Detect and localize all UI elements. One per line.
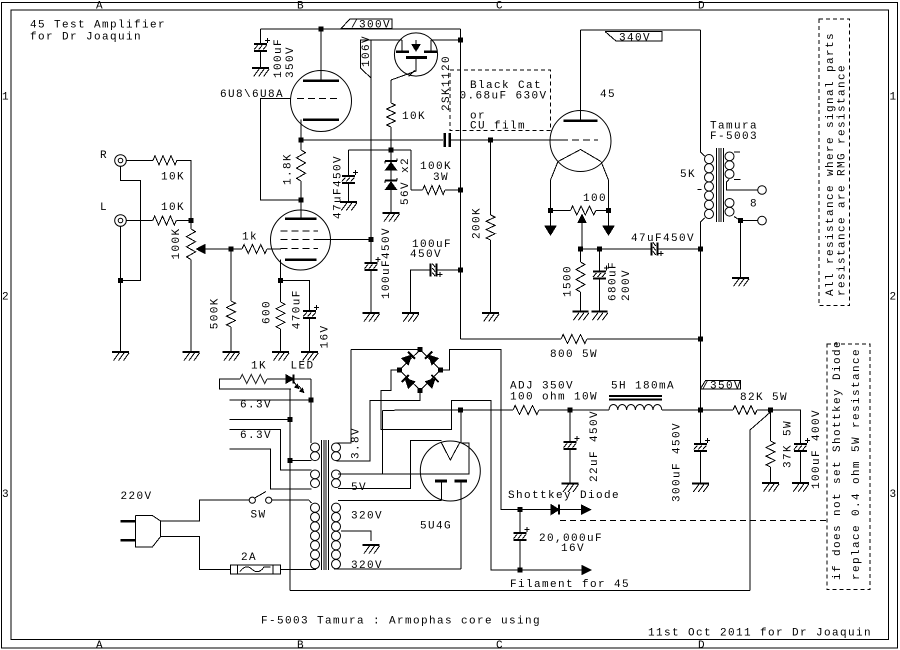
junction bridge bottom: [418, 388, 423, 393]
svg-text:200K: 200K: [472, 207, 484, 239]
flag 106V: [360, 40, 371, 78]
svg-text:16V: 16V: [561, 543, 585, 555]
svg-text:8: 8: [750, 199, 758, 211]
tube U1a 6U8 triode: [291, 71, 352, 132]
tube V3 5U4G: [420, 441, 480, 501]
bridge diode D4: [429, 355, 439, 365]
node mix junction: [189, 218, 194, 223]
pot wiper arrow: [197, 245, 206, 254]
wire 10K R to node: [177, 160, 191, 220]
fuse F1 2A: [230, 565, 280, 574]
svg-text:6.3V: 6.3V: [240, 400, 272, 412]
connector fil right arrow: [608, 211, 610, 227]
svg-text:200V: 200V: [621, 269, 633, 301]
svg-text:3: 3: [889, 489, 897, 501]
wire U1a plate up: [320, 29, 322, 81]
wire 6.3V-1 top: [230, 399, 312, 401]
resistor 10K L: [153, 216, 177, 225]
wire 1k to grid: [267, 248, 281, 250]
tube U1b 6U8 pentode: [271, 210, 331, 270]
zener D1 56V: [390, 150, 392, 161]
svg-text:16V: 16V: [319, 324, 331, 348]
wire sec gnd: [740, 221, 742, 278]
wire bridge ac2: [337, 390, 421, 461]
svg-text:100: 100: [583, 193, 607, 205]
potentiometer 100 hum: [551, 210, 571, 212]
wire LED cathode: [293, 378, 311, 380]
wire U1a grid: [261, 99, 299, 200]
junction cathode k2: [278, 278, 283, 283]
junction 100K3W net: [458, 188, 463, 193]
wire rail to C1: [260, 29, 262, 44]
svg-text:22uF 450V: 22uF 450V: [589, 410, 601, 482]
switch SW: [249, 497, 255, 503]
potentiometer 100K: [190, 221, 192, 230]
resistor 600: [280, 281, 282, 302]
svg-text:6.3V: 6.3V: [240, 430, 272, 442]
V3 filament notch: [441, 443, 460, 461]
junction bypass node: [458, 268, 463, 273]
svg-text:300uF 450V: 300uF 450V: [672, 422, 684, 502]
capacitor 470uF 16V: [303, 310, 316, 312]
wire zener gnd: [390, 190, 392, 213]
svg-text:320V: 320V: [351, 560, 383, 572]
ground bypass: [402, 312, 419, 314]
capacitor 47uF450V gate: [347, 150, 349, 176]
wire 63v1 coil link: [290, 460, 312, 462]
note box Shottkey: [827, 344, 870, 590]
ground pot: [183, 351, 200, 353]
U1b plate: [285, 218, 317, 221]
svg-text:5H 180mA: 5H 180mA: [611, 381, 675, 393]
svg-text:600: 600: [262, 300, 274, 324]
T2 winding 3.8V: [332, 443, 341, 452]
wire 22uF gnd: [569, 449, 571, 484]
resistor 82K 5W: [700, 409, 733, 411]
svg-text:resistance are RMG resistance: resistance are RMG resistance: [837, 64, 849, 296]
wire coupling out: [451, 139, 491, 141]
junction fil right: [606, 208, 611, 213]
T2 winding 6.3V no1: [311, 443, 320, 452]
note box Black Cat: [450, 70, 551, 131]
capacitor 300uF 450V: [694, 443, 707, 445]
wire bridge minus: [381, 370, 520, 570]
junction 63v1 bot: [288, 417, 293, 422]
svg-text:5K: 5K: [680, 169, 696, 181]
svg-text:11st Oct 2011 for Dr Joaquin: 11st Oct 2011 for Dr Joaquin: [648, 628, 872, 640]
capacitor C1 100uF 350V: [254, 43, 267, 45]
svg-text:10K: 10K: [161, 172, 185, 184]
svg-text:47uF450V: 47uF450V: [333, 155, 345, 219]
V2 filament legs: [551, 162, 559, 211]
svg-text:106V: 106V: [361, 35, 373, 67]
svg-text:1k: 1k: [242, 232, 258, 244]
svg-text:0.68uF 630V: 0.68uF 630V: [460, 91, 548, 103]
wire signal node: [301, 139, 443, 141]
svg-text:2: 2: [889, 292, 897, 304]
svg-text:3.8V: 3.8V: [351, 427, 363, 459]
resistor 10K R: [153, 156, 177, 165]
svg-text:All resistance where signal pa: All resistance where signal parts: [825, 32, 837, 296]
svg-text:if does not set Shottkey Diode: if does not set Shottkey Diode: [832, 340, 844, 580]
svg-text:CU film: CU film: [470, 121, 526, 133]
svg-text:6U8\6U8A: 6U8\6U8A: [220, 89, 284, 101]
junction B+ tfmr: [698, 246, 703, 251]
junction 63v1 coil: [288, 458, 293, 463]
diode Shottkey: [520, 509, 551, 511]
svg-text:5U4G: 5U4G: [420, 521, 452, 533]
wire filament 45 net: [290, 590, 750, 592]
svg-text:2: 2: [2, 292, 10, 304]
T2 winding 6.3V no2: [311, 470, 320, 479]
V2 filament: [558, 150, 601, 162]
U1b cathode: [285, 258, 317, 261]
wire 320V upper: [338, 499, 441, 501]
junction wiper net: [578, 246, 583, 251]
svg-text:100 ohm 10W: 100 ohm 10W: [510, 392, 598, 404]
T2 winding HV 320-0-320: [332, 503, 341, 512]
V3 plate left: [435, 480, 447, 483]
svg-text:220V: 220V: [121, 491, 153, 503]
wire 800 out: [587, 338, 700, 340]
bridge diode D3: [402, 355, 412, 365]
wire 47uF gnd: [347, 183, 349, 202]
V3 plate right: [455, 480, 467, 483]
svg-text:100uF 400V: 100uF 400V: [811, 409, 823, 489]
junction grid45 net: [488, 138, 493, 143]
T2 winding primary 220V: [311, 503, 320, 512]
junction 63v1 top: [309, 398, 314, 403]
svg-text:100K: 100K: [171, 227, 183, 259]
wire grid45: [491, 139, 562, 141]
wire 6.3V-1 bottom: [230, 419, 291, 421]
flag 300V: [341, 19, 392, 29]
wire 100uF400 gnd: [799, 451, 801, 483]
resistor 37K 5W: [770, 410, 772, 441]
wire sw to primary: [272, 499, 309, 501]
wire U1b cathode down: [280, 260, 282, 281]
capacitor coupling 0.68uF: [443, 133, 446, 147]
svg-text:350V: 350V: [285, 46, 297, 78]
junction bridge left: [397, 368, 402, 373]
jack R: [115, 155, 127, 167]
wire divider to filament: [750, 412, 771, 591]
wire screen cap gnd: [370, 270, 372, 313]
capacitor C 100uF450V screen: [370, 240, 372, 263]
T1 secondary lower: [725, 199, 734, 208]
wire adj out: [539, 409, 570, 411]
wire L sleeve: [120, 227, 122, 353]
wire cathode net: [581, 248, 652, 250]
connector fil plus arrow: [560, 509, 583, 511]
wire bias cap out: [659, 248, 701, 250]
ground 47uF: [340, 201, 357, 203]
wire 300uF gnd: [699, 451, 701, 484]
capacitor 47uF450V bias: [650, 242, 652, 255]
wire adj riser: [381, 410, 383, 474]
transformer T2 power core: [321, 440, 323, 570]
svg-text:37K 5W: 37K 5W: [783, 420, 795, 468]
ground 680uF: [592, 311, 608, 313]
wire 10K L out: [176, 220, 191, 222]
note box RMG: [819, 19, 850, 306]
rail zener node: [348, 149, 411, 151]
transistor Q1 2SK1120: [371, 33, 460, 80]
svg-text:C: C: [496, 0, 504, 12]
wire adj bus: [382, 409, 459, 411]
junction fil left: [548, 208, 553, 213]
wire fuse out: [280, 568, 316, 570]
svg-text:F-5003 Tamura : Armophas core: F-5003 Tamura : Armophas core using: [261, 616, 541, 628]
wire pot to ground: [190, 260, 192, 353]
wire U1a cathode down: [300, 120, 302, 141]
svg-text:L: L: [100, 202, 108, 214]
ground 300uF: [692, 483, 709, 485]
connector fil left arrow: [550, 211, 552, 227]
junction divider: [768, 408, 773, 413]
junction 22uF node: [568, 408, 573, 413]
svg-text:A: A: [96, 0, 104, 12]
svg-text:2A: 2A: [241, 552, 257, 564]
wire bridge plus: [441, 350, 521, 510]
svg-text:/300V: /300V: [351, 20, 391, 32]
svg-text:800 5W: 800 5W: [550, 349, 598, 361]
zener D2 56V: [390, 170, 392, 181]
dashed link to note: [560, 520, 827, 522]
ground 1500: [573, 311, 589, 313]
svg-text:B: B: [297, 640, 305, 650]
inductor choke 5H 180mA: [570, 409, 609, 411]
wire sec tap to 8ohm: [734, 179, 740, 181]
junction gate net: [389, 148, 394, 153]
wire R tip: [126, 159, 153, 161]
capacitor 100uF 450V bypass: [438, 269, 461, 271]
wire k2 to C470: [281, 281, 310, 311]
capacitor 680uF 200V: [599, 249, 601, 272]
wire U1b screen: [318, 239, 371, 241]
ground 500K: [223, 351, 240, 353]
svg-text:A: A: [96, 640, 104, 650]
svg-text:10K: 10K: [402, 111, 426, 123]
junction B+ top: [698, 337, 703, 342]
title text: [30, 20, 166, 44]
wire C1 gnd: [260, 51, 262, 68]
U1b plate lead: [300, 200, 302, 219]
resistor 1.8K: [300, 140, 302, 150]
capacitor 20000uF 16V: [519, 510, 521, 533]
wire primary top bend: [309, 500, 312, 503]
resistor 1k: [242, 245, 267, 254]
wire node to 500K: [230, 249, 232, 301]
svg-text:3: 3: [2, 489, 10, 501]
svg-text:B: B: [297, 0, 305, 12]
rectifier bridge: [400, 350, 441, 391]
T1 secondary upper: [725, 152, 734, 161]
svg-text:1: 1: [889, 92, 897, 104]
svg-text:100uF450V: 100uF450V: [381, 227, 393, 299]
ground 37K: [762, 482, 779, 484]
wire bypass left gnd: [410, 270, 430, 313]
U1a plate: [303, 79, 339, 82]
ground 200K: [482, 312, 499, 314]
svg-text:82K 5W: 82K 5W: [740, 392, 788, 404]
U1b grid3 dashed: [281, 230, 319, 232]
resistor 1K LED: [220, 379, 292, 389]
resistor 500K: [227, 301, 236, 327]
svg-text:45 Test Amplifier: 45 Test Amplifier: [30, 20, 166, 32]
T2 winding 5V: [332, 470, 341, 479]
svg-text:LED: LED: [291, 361, 315, 373]
svg-text:340V: 340V: [619, 32, 651, 44]
resistor 10K gate: [390, 80, 392, 103]
junction adj in: [458, 408, 463, 413]
V2 grid dashed: [561, 139, 598, 141]
svg-text:2SK1120: 2SK1120: [441, 55, 453, 111]
terminal speaker plus: [758, 186, 767, 195]
junction 20000 minus: [518, 568, 523, 573]
svg-text:470uF: 470uF: [291, 289, 303, 329]
ground zeners: [383, 212, 400, 214]
junction plate rail: [319, 27, 324, 32]
jack L: [115, 215, 127, 227]
junction screen node: [369, 237, 374, 242]
ground C1: [252, 67, 269, 69]
wire 5V bottom: [338, 441, 441, 489]
ground 600: [272, 351, 289, 353]
ground C470: [301, 351, 318, 353]
wire plug top: [161, 500, 249, 521]
wire bridge ac1: [351, 349, 420, 351]
T1 core: [716, 148, 718, 222]
wire 500K gnd: [230, 327, 232, 352]
wire 6.3V-2 top: [230, 430, 312, 470]
wire div to 100uF: [771, 410, 801, 444]
wire L tip: [126, 220, 152, 222]
svg-text:Filament for 45: Filament for 45: [510, 579, 630, 591]
svg-text:100uF: 100uF: [273, 38, 285, 78]
wire 6.3V-2 bottom: [230, 449, 312, 489]
ground 100uF400: [792, 482, 809, 484]
svg-text:1K: 1K: [251, 361, 267, 373]
U1a grid dashed: [297, 98, 337, 100]
junction sleeve: [118, 278, 123, 283]
svg-text:500K: 500K: [209, 297, 221, 329]
junction sec gnd: [738, 218, 743, 223]
hum pot wiper: [578, 215, 586, 223]
wire 3.8V top: [337, 350, 352, 443]
junction fet drain: [458, 38, 463, 43]
junction bridge top: [418, 347, 423, 352]
ground screen cap: [363, 312, 380, 314]
svg-text:/350V: /350V: [702, 380, 742, 392]
svg-text:450V: 450V: [410, 249, 442, 261]
wire C470 gnd: [309, 318, 311, 352]
bridge diode D6: [425, 378, 435, 388]
resistor 1500: [580, 249, 582, 262]
bridge diode D5: [405, 378, 415, 388]
wire rail corner down: [459, 29, 461, 339]
junction 680 node: [597, 246, 602, 251]
flag 350V: [700, 381, 740, 390]
terminal speaker minus: [741, 220, 758, 222]
connector fil minus arrow: [520, 569, 583, 571]
svg-text:1.8K: 1.8K: [283, 153, 295, 185]
V2 plate: [564, 119, 598, 122]
wire HV center tap: [341, 531, 371, 541]
wire 320V lower: [334, 568, 461, 570]
svg-text:SW: SW: [251, 510, 267, 522]
net 300V rail: [261, 28, 461, 30]
svg-text:D: D: [698, 640, 706, 650]
svg-text:replace 0.4 ohm 5W resistance: replace 0.4 ohm 5W resistance: [851, 348, 863, 580]
wire 5V top: [338, 443, 469, 474]
resistor 100K 3W: [410, 150, 412, 190]
wire B+ bus: [460, 338, 561, 340]
U1a cathode: [303, 118, 339, 121]
junction bridge right: [438, 368, 443, 373]
resistor ADJ 100 ohm 10W: [513, 406, 539, 415]
net 340V rail: [580, 30, 582, 121]
svg-text:D: D: [698, 0, 706, 12]
resistor 200K: [490, 140, 492, 215]
svg-text:for Dr Joaquin: for Dr Joaquin: [30, 32, 142, 44]
wire plug bottom: [161, 537, 231, 570]
svg-text:10K: 10K: [161, 202, 185, 214]
junction plate node: [299, 198, 304, 203]
svg-text:45: 45: [600, 89, 616, 101]
junction cathode node: [299, 138, 304, 143]
svg-text:680uF: 680uF: [608, 261, 620, 301]
transformer T1 Tamura F-5003 primary: [699, 30, 701, 152]
junction shottkey in: [518, 507, 523, 512]
capacitor 22uF 450V: [569, 410, 571, 442]
svg-text:320V: 320V: [351, 511, 383, 523]
U1b grid2 dashed: [281, 239, 319, 241]
svg-text:1: 1: [2, 92, 10, 104]
plug P1 220V: [121, 520, 136, 523]
LED D7: [267, 378, 286, 380]
U1b grid1 dashed: [281, 248, 319, 250]
ground input: [112, 351, 129, 353]
tube V2 45: [550, 111, 611, 172]
ground 22uF: [562, 483, 579, 485]
wire fil right up: [460, 410, 462, 443]
junction wiper node: [229, 247, 234, 252]
svg-text:56V x2: 56V x2: [400, 157, 412, 205]
svg-text:1500: 1500: [563, 265, 575, 297]
wire choke out: [662, 409, 700, 411]
junction choke out: [698, 408, 703, 413]
capacitor 100uF 400V: [794, 443, 807, 445]
svg-text:5V: 5V: [351, 482, 367, 494]
svg-text:Shottkey Diode: Shottkey Diode: [508, 490, 620, 502]
wire R sleeve: [121, 167, 141, 281]
net 106V wire: [370, 40, 372, 240]
svg-text:47uF450V: 47uF450V: [631, 233, 695, 245]
svg-text:3W: 3W: [433, 172, 449, 184]
svg-text:C: C: [496, 640, 504, 650]
wire sec bottom: [734, 217, 741, 221]
resistor 800 5W: [561, 335, 587, 344]
svg-text:F-5003: F-5003: [710, 131, 758, 143]
svg-text:R: R: [100, 150, 108, 162]
ground secondary: [732, 277, 749, 279]
flag 340V: [605, 32, 662, 42]
